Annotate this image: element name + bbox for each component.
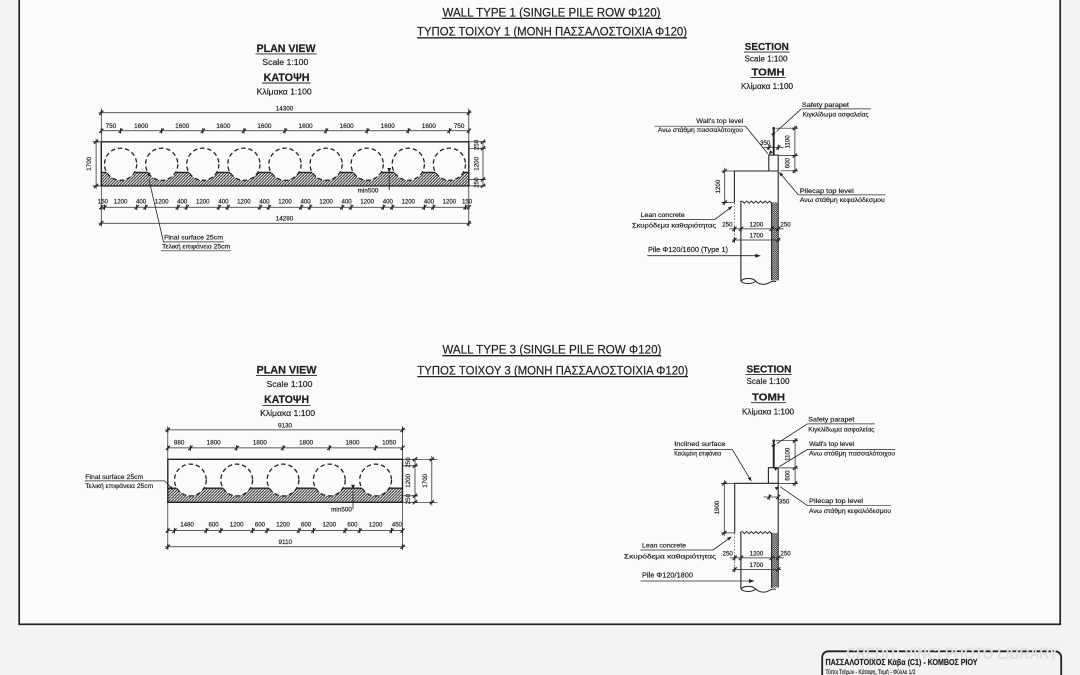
dim right side 250/1200/250 (plan 3) [403,457,418,505]
section 3 dim 1700 [732,562,781,572]
svg-text:Ανω στάθμη κεφαλόδεσμου: Ανω στάθμη κεφαλόδεσμου [809,507,892,515]
pile circle 1 (plan 3) [175,464,207,496]
svg-text:1600: 1600 [134,123,149,130]
svg-text:PLAN VIEW: PLAN VIEW [257,43,316,55]
svg-text:1200: 1200 [237,199,251,206]
svg-text:1200: 1200 [750,550,764,557]
svg-text:Pilecap top level: Pilecap top level [809,498,863,505]
final surface note (plan 1) [148,172,231,251]
plan 1 wall outline [101,142,469,186]
pile circle 2 (plan 3) [221,464,253,496]
section 3 safety parapet post [772,439,775,467]
svg-text:1200: 1200 [360,199,374,206]
section 1 dim 250/1200/250 [722,221,791,231]
section 1 dim 350 (wall thickness) [760,140,783,150]
svg-text:Pilecap top level: Pilecap top level [800,188,854,195]
svg-text:Pile Φ120/1800: Pile Φ120/1800 [642,572,693,579]
section 3 level extension lines [776,441,798,484]
svg-text:600: 600 [347,521,358,528]
svg-text:1800: 1800 [253,440,268,447]
svg-text:1100: 1100 [785,447,792,461]
svg-text:ΤΥΠΟΣ ΤΟΙΧΟΥ 3 (ΜΟΝΗ ΠΑΣΣΑΛΟΣΤ: ΤΥΠΟΣ ΤΟΙΧΟΥ 3 (ΜΟΝΗ ΠΑΣΣΑΛΟΣΤΟΙΧΙΑ Φ120… [417,363,688,377]
svg-text:600: 600 [301,521,312,528]
title block box [822,651,1061,675]
section 1 callout: walls top level [655,118,773,155]
svg-text:ΤΟΜΗ: ΤΟΜΗ [752,68,785,79]
dim row total 9110 (plan 3) [165,539,405,550]
svg-text:1200: 1200 [155,199,169,206]
svg-text:Scale 1:100: Scale 1:100 [745,55,789,64]
svg-text:1600: 1600 [175,123,190,130]
svg-text:1800: 1800 [345,440,360,447]
svg-text:1200: 1200 [750,221,764,228]
svg-text:1200: 1200 [230,521,244,528]
svg-text:ΤΥΠΟΣ ΤΟΙΧΟΥ 1 (ΜΟΝΗ ΠΑΣΣΑΛΟΣΤ: ΤΥΠΟΣ ΤΟΙΧΟΥ 1 (ΜΟΝΗ ΠΑΣΣΑΛΟΣΤΟΙΧΙΑ Φ120… [417,25,687,39]
section 1 lean concrete wavy line [740,201,772,203]
svg-text:250: 250 [722,221,733,228]
pile circle 8 (plan 1) [392,148,424,180]
svg-text:Ανω στάθμη πασσαλότοιχου: Ανω στάθμη πασσαλότοιχου [658,126,744,134]
svg-text:1050: 1050 [382,440,397,447]
dim row total 9130 (plan 3) [165,422,405,459]
svg-text:SECTION: SECTION [747,364,792,375]
svg-text:Safety parapet: Safety parapet [802,102,849,109]
section 1 safety parapet post [772,127,775,155]
min500 callout (plan 1) [358,168,391,195]
pile circle 3 (plan 3) [267,464,299,496]
svg-text:1600: 1600 [340,123,355,130]
section 1 dim 1700 [732,232,781,242]
svg-text:250: 250 [780,221,791,228]
dim row total 14300 (plan 1) [99,105,472,141]
svg-text:450: 450 [392,521,403,528]
heading PLAN VIEW (type 1) [256,43,317,55]
dim row pile spacing 880/1800/1050 (plan 3) [166,440,405,451]
svg-text:400: 400 [342,199,353,206]
svg-text:WALL TYPE 1 (SINGLE PILE ROW Φ: WALL TYPE 1 (SINGLE PILE ROW Φ120) [443,6,661,20]
pile circle 4 (plan 3) [313,464,345,496]
svg-text:Final surface 25cm: Final surface 25cm [85,474,143,481]
svg-text:1100: 1100 [784,135,791,149]
section 3 dim 350 (wall thickness) [764,494,790,505]
pile circle 1 (plan 1) [105,148,137,180]
section 1 callout: pilecap top level [779,172,886,204]
svg-text:Scale 1:100: Scale 1:100 [747,377,791,386]
section 3 callout: pilecap top level [775,486,892,515]
section 3 pile shaft [741,533,772,589]
svg-text:1200: 1200 [196,199,210,206]
svg-text:CREDIT: VINCI PHOTO LIBRARY: CREDIT: VINCI PHOTO LIBRARY [846,644,1059,663]
svg-text:Σκυρόδεμα καθαριότητας: Σκυρόδεμα καθαριότητας [624,553,716,561]
dim right outer 1700 (plan 3) [403,456,438,506]
heading SECTION (type 3) [746,364,792,375]
plan 3 hatched final-surface strip [168,488,403,501]
svg-text:min500: min500 [331,507,352,514]
section 3 callout: lean concrete [624,537,732,561]
pile circle 4 (plan 1) [228,148,260,180]
main title type 3 (greek) [417,363,688,377]
svg-text:Κεκλιμένη επιφάνεια: Κεκλιμένη επιφάνεια [674,450,721,458]
svg-text:1600: 1600 [422,123,437,130]
svg-text:400: 400 [259,199,270,206]
svg-text:Κλίμακα 1:100: Κλίμακα 1:100 [257,87,312,97]
svg-text:14300: 14300 [276,105,294,112]
svg-text:Scale 1:100: Scale 1:100 [267,379,313,389]
section 3 pile designation label [641,572,755,583]
svg-text:1800: 1800 [299,440,314,447]
main title WALL TYPE 3 (english) [442,343,661,357]
section 1 pile shaft [741,202,772,281]
svg-text:750: 750 [106,123,117,130]
section 1 pile designation label [647,247,761,258]
svg-text:1600: 1600 [299,123,314,130]
svg-text:1480: 1480 [180,521,194,528]
svg-text:Σκυρόδεμα καθαριότητας: Σκυρόδεμα καθαριότητας [632,221,716,229]
plan 3 wall outline [168,459,403,502]
pile circle 5 (plan 3) [360,464,392,496]
svg-text:750: 750 [454,123,465,130]
svg-text:250: 250 [474,177,481,188]
svg-text:Τελική επιφάνεια 25cm: Τελική επιφάνεια 25cm [162,243,230,251]
pile circle 6 (plan 1) [310,148,342,180]
svg-text:1600: 1600 [216,123,231,130]
heading TOMH (section 1) [751,68,786,79]
svg-text:Lean concrete: Lean concrete [641,212,685,219]
svg-text:9110: 9110 [279,539,293,546]
pile circle 3 (plan 1) [187,148,219,180]
heading KATOPSI (plan 1) [262,72,311,84]
pile circle 9 (plan 1) [433,148,465,180]
svg-text:600: 600 [785,470,792,481]
svg-text:350: 350 [779,498,790,505]
pile circle 2 (plan 1) [146,148,178,180]
section 3 dotted extension below pilecap [734,534,736,572]
section 3 dim 1900 (pilecap height) [714,480,735,536]
svg-text:1700: 1700 [422,473,429,487]
svg-text:Ανω στάθμη πασσαλότοιχου: Ανω στάθμη πασσαλότοιχου [809,450,896,458]
section 3 pile break symbol [741,586,776,592]
svg-text:ΚΑΤΟΨΗ: ΚΑΤΟΨΗ [264,394,309,406]
dim left side 1700 (plan 1) [86,139,101,189]
section 3 callout: safety parapet [771,417,875,448]
svg-text:250: 250 [405,457,412,468]
svg-text:Τελική επιφάνεια 25cm: Τελική επιφάνεια 25cm [85,482,153,490]
svg-text:Κλίμακα 1:100: Κλίμακα 1:100 [260,408,315,418]
section 1 pile break symbol [741,279,776,285]
svg-text:400: 400 [424,199,435,206]
section 1 pile hatch strip [772,202,779,280]
svg-text:400: 400 [177,199,188,206]
svg-text:Ανω στάθμη κεφαλόδεσμου: Ανω στάθμη κεφαλόδεσμου [800,196,886,204]
svg-text:Pile Φ120/1600 (Type 1): Pile Φ120/1600 (Type 1) [648,247,728,254]
svg-text:250: 250 [723,550,734,557]
svg-text:1700: 1700 [750,562,764,569]
section 3 pile hatch strip [772,533,779,588]
svg-text:1200: 1200 [319,199,333,206]
section 3 callout: inclined surface [674,441,752,481]
section 1 callout: safety parapet [771,102,871,137]
svg-text:Safety parapet: Safety parapet [808,417,854,424]
svg-text:ΤΟΜΗ: ΤΟΜΗ [752,393,785,404]
section 1 wall stem outline [769,155,778,171]
svg-text:Κιγκλίδωμα ασφαλείας: Κιγκλίδωμα ασφαλείας [803,110,869,118]
svg-text:Τύποι Τοίχων - Κάτοψη, Τομή -: Τύποι Τοίχων - Κάτοψη, Τομή - Φύλλο 1/2 [826,668,916,675]
svg-text:Inclined surface: Inclined surface [674,441,726,448]
heading PLAN VIEW (type 3) [256,364,317,376]
svg-text:150: 150 [462,199,473,206]
section 1 dim 600 [784,156,797,174]
svg-text:Wall's top level: Wall's top level [809,441,854,448]
section 1 level extension lines [776,128,798,171]
svg-text:1200: 1200 [323,521,337,528]
svg-text:Κλίμακα 1:100: Κλίμακα 1:100 [741,82,794,91]
svg-text:14280: 14280 [276,215,294,222]
section 3 callout: walls top level [774,441,896,471]
svg-text:1200: 1200 [405,473,412,487]
section 1 dim 1100 [784,126,797,158]
plan 1 hatched final-surface strip [101,172,469,185]
svg-text:WALL TYPE 3 (SINGLE PILE ROW Φ: WALL TYPE 3 (SINGLE PILE ROW Φ120) [442,343,661,357]
pile circle 7 (plan 1) [351,148,383,180]
dim right side 250/1200/250 (plan 1) [469,139,486,188]
section 3 wall stem outline [768,468,778,484]
svg-text:600: 600 [255,521,266,528]
svg-text:1200: 1200 [276,521,290,528]
svg-text:250: 250 [780,550,791,557]
svg-text:1900: 1900 [714,500,721,514]
svg-text:1200: 1200 [114,199,128,206]
main title type 1 (greek) [417,25,687,39]
svg-text:1200: 1200 [715,179,722,193]
svg-text:400: 400 [301,199,312,206]
svg-text:min500: min500 [358,188,379,195]
section 3 dim 1100 [785,438,798,470]
svg-text:400: 400 [383,199,394,206]
svg-text:1800: 1800 [207,440,222,447]
svg-text:9130: 9130 [278,422,293,429]
svg-text:400: 400 [136,199,147,206]
dim row total 14280 (plan 1) [99,215,472,226]
svg-text:250: 250 [474,139,481,150]
svg-text:1700: 1700 [86,156,93,170]
svg-text:1200: 1200 [369,521,383,528]
dim row pile widths 150/1200/400 (plan 1) [98,186,473,227]
section 3 dim 250/1200/250 [723,550,792,560]
svg-text:600: 600 [784,157,791,168]
svg-text:Κιγκλίδωμα ασφαλείας: Κιγκλίδωμα ασφαλείας [808,425,874,433]
svg-text:ΚΑΤΟΨΗ: ΚΑΤΟΨΗ [264,72,310,84]
svg-text:1200: 1200 [443,199,457,206]
svg-text:150: 150 [98,199,109,206]
section 3 dim 600 [785,468,798,486]
pile circle 5 (plan 1) [269,148,301,180]
svg-text:Final surface 25cm: Final surface 25cm [164,235,223,242]
svg-text:1600: 1600 [257,123,272,130]
svg-text:1700: 1700 [750,232,764,239]
section 1 pilecap outline [734,171,778,202]
svg-text:Κλίμακα 1:100: Κλίμακα 1:100 [742,408,795,417]
dim row pile spacing 750/1600 (plan 1) [99,123,471,134]
heading TOMH (section 3) [751,393,786,404]
svg-text:400: 400 [218,199,229,206]
main title WALL TYPE 1 (english) [442,6,661,20]
section 1 callout: lean concrete [632,206,733,229]
dim row pile widths 1480/600/1200/450 (plan 3) [166,502,405,550]
final surface note (plan 3) [85,474,174,490]
svg-text:1200: 1200 [474,156,481,170]
svg-text:600: 600 [209,521,220,528]
heading KATOPSI (plan 3) [263,394,311,406]
svg-text:Scale 1:100: Scale 1:100 [262,57,308,67]
svg-text:Lean concrete: Lean concrete [642,543,686,550]
svg-text:PLAN VIEW: PLAN VIEW [257,364,317,376]
section 1 dotted extension below pilecap [733,203,735,242]
svg-text:1600: 1600 [381,123,396,130]
svg-text:1200: 1200 [402,199,416,206]
svg-text:Wall's top level: Wall's top level [696,118,743,125]
svg-text:880: 880 [174,440,185,447]
svg-text:1200: 1200 [278,199,292,206]
section 3 lean concrete wavy line [740,532,772,534]
heading SECTION (type 1) [744,42,790,53]
svg-text:SECTION: SECTION [745,42,789,53]
section 3 pilecap outline [735,483,779,533]
section 1 dim 1200 (pilecap height) [715,168,734,206]
min500 callout (plan 3) [331,485,355,514]
